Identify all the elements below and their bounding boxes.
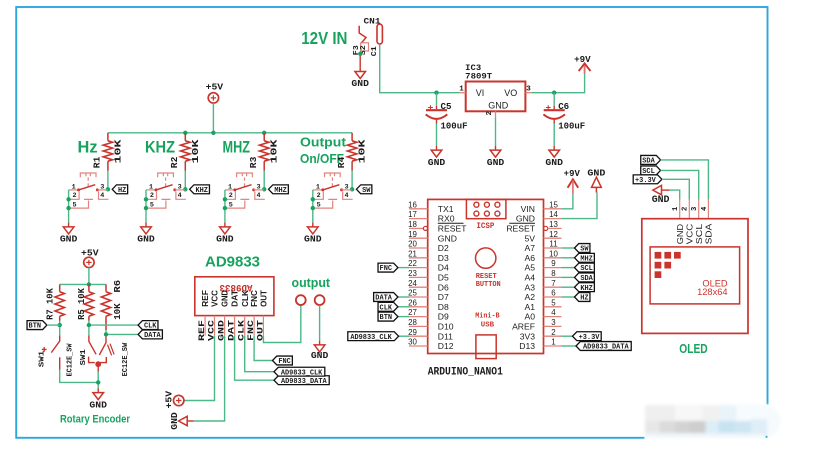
svg-text:2: 2 bbox=[682, 207, 690, 211]
svg-text:GND: GND bbox=[60, 234, 78, 245]
svg-text:GND: GND bbox=[311, 350, 329, 361]
pin 22 D4 of ARDUINO_NANO1 bbox=[409, 267, 428, 269]
svg-text:DATA: DATA bbox=[144, 332, 161, 340]
svg-text:3: 3 bbox=[178, 184, 182, 192]
supply +5V at AD9833 bbox=[174, 395, 184, 405]
resistor R3 10K bbox=[263, 133, 265, 141]
wire SDA to OLED pin4 bbox=[661, 160, 709, 200]
ground at output connector bbox=[319, 341, 321, 345]
resistor R7 10K bbox=[59, 284, 61, 291]
svg-text:100uF: 100uF bbox=[441, 121, 468, 132]
svg-text:3: 3 bbox=[551, 318, 556, 327]
ground arrow at OLED bbox=[653, 185, 662, 194]
net label SDA at OLED bbox=[641, 155, 661, 164]
svg-text:GND: GND bbox=[516, 214, 535, 224]
svg-text:5: 5 bbox=[317, 201, 321, 209]
svg-text:D3: D3 bbox=[438, 253, 449, 263]
net label HZ bbox=[112, 185, 127, 194]
encoder pushbutton switch SW1 bbox=[59, 327, 61, 335]
wire pin27 to BTN bbox=[398, 316, 409, 318]
net label MHZ at Arduino right bbox=[575, 253, 595, 262]
net label DATA at Arduino bbox=[374, 293, 398, 302]
svg-text:2: 2 bbox=[317, 192, 321, 200]
svg-text:22: 22 bbox=[408, 259, 417, 268]
svg-text:D7: D7 bbox=[438, 292, 449, 302]
svg-text:R5 10K: R5 10K bbox=[76, 288, 87, 320]
svg-text:R6: R6 bbox=[112, 279, 123, 292]
junction dots on rail bbox=[183, 131, 187, 135]
wire pin2 to +3.3V bbox=[562, 335, 573, 337]
pin 17 RX0 of ARDUINO_NANO1 bbox=[409, 218, 428, 220]
wire +5V to rail bbox=[212, 103, 214, 133]
svg-text:A1: A1 bbox=[524, 302, 535, 312]
svg-text:R1: R1 bbox=[92, 156, 103, 168]
pin 23 D5 of ARDUINO_NANO1 bbox=[409, 276, 428, 278]
svg-text:VO: VO bbox=[504, 88, 517, 98]
svg-text:AREF: AREF bbox=[512, 322, 535, 332]
svg-text:1: 1 bbox=[551, 338, 555, 347]
net label MHZ bbox=[269, 185, 289, 194]
svg-text:REF: REF bbox=[201, 290, 210, 307]
svg-text:ICSP: ICSP bbox=[476, 222, 494, 231]
svg-text:KHZ: KHZ bbox=[580, 285, 593, 293]
svg-text:14: 14 bbox=[549, 210, 558, 219]
svg-text:8: 8 bbox=[551, 269, 556, 278]
svg-text:C5: C5 bbox=[441, 101, 452, 112]
pin 19 GND of ARDUINO_NANO1 bbox=[409, 237, 428, 239]
net label SW at Arduino right bbox=[575, 244, 590, 253]
resistor R1 10K bbox=[107, 133, 109, 141]
ground under switch HZ bbox=[68, 223, 70, 227]
pin 1 D13 of ARDUINO_NANO1 bbox=[544, 345, 562, 347]
svg-text:3V3: 3V3 bbox=[520, 331, 536, 341]
svg-text:R4: R4 bbox=[336, 156, 347, 168]
svg-text:23: 23 bbox=[408, 269, 417, 278]
svg-text:5: 5 bbox=[72, 201, 76, 209]
svg-text:Rotary Encoder: Rotary Encoder bbox=[60, 413, 131, 425]
pin 30 D12 of ARDUINO_NANO1 bbox=[409, 345, 428, 347]
svg-text:RESET: RESET bbox=[476, 273, 497, 281]
pin 8 A4 of ARDUINO_NANO1 bbox=[544, 276, 562, 278]
net label AD9833_DATA at module bbox=[274, 376, 329, 385]
svg-text:1: 1 bbox=[228, 184, 232, 192]
svg-text:MHZ: MHZ bbox=[580, 255, 593, 263]
net label BTN at Arduino bbox=[378, 312, 398, 321]
wire +3.3V to OLED pin2 bbox=[662, 179, 689, 199]
reset button bbox=[476, 248, 496, 268]
net label CLK at Arduino bbox=[378, 302, 398, 311]
svg-text:MHZ: MHZ bbox=[274, 187, 287, 195]
resistor R6 10K bbox=[105, 284, 107, 291]
wire regulator output to +9V bbox=[531, 74, 584, 93]
svg-text:5: 5 bbox=[229, 201, 233, 209]
svg-text:SDA: SDA bbox=[642, 158, 655, 166]
wire pin to SCL bbox=[562, 267, 575, 269]
svg-text:ARDUINO_NANO1: ARDUINO_NANO1 bbox=[428, 366, 504, 378]
pin 3 AREF of ARDUINO_NANO1 bbox=[544, 325, 562, 327]
svg-text:128x64: 128x64 bbox=[697, 286, 728, 297]
net label +3.3V at OLED bbox=[633, 175, 662, 184]
svg-text:SW1: SW1 bbox=[80, 348, 88, 365]
pin 28 D10 of ARDUINO_NANO1 bbox=[409, 325, 428, 327]
svg-text:2: 2 bbox=[150, 192, 154, 200]
net label DATA encoder bbox=[138, 330, 162, 339]
wire SCL to OLED pin3 bbox=[661, 170, 699, 199]
svg-text:VIN: VIN bbox=[521, 204, 535, 214]
node KHZ junction bbox=[183, 187, 187, 191]
wire switch HZ to ground bbox=[68, 190, 70, 223]
svg-text:A2: A2 bbox=[524, 292, 535, 302]
watermark bbox=[645, 404, 782, 441]
svg-text:4: 4 bbox=[257, 192, 261, 200]
resistor R2 10K bbox=[184, 133, 186, 141]
svg-text:AD9833_DATA: AD9833_DATA bbox=[281, 378, 327, 386]
pin 24 D6 of ARDUINO_NANO1 bbox=[409, 286, 428, 288]
svg-text:GND: GND bbox=[487, 157, 505, 168]
svg-text:BTN: BTN bbox=[29, 323, 42, 331]
module ARDUINO_NANO1 box bbox=[428, 199, 544, 353]
svg-text:5: 5 bbox=[150, 201, 154, 209]
svg-text:RX0: RX0 bbox=[438, 214, 455, 224]
pin 1 GND of OLED bbox=[679, 200, 681, 219]
svg-text:13: 13 bbox=[549, 220, 558, 229]
net label SW bbox=[356, 185, 371, 194]
wire +9V to pin 15 bbox=[562, 194, 573, 209]
svg-text:+: + bbox=[428, 103, 434, 114]
svg-text:DATA: DATA bbox=[375, 295, 392, 303]
wire DAT to AD9833_DATA bbox=[235, 336, 274, 381]
svg-text:GND: GND bbox=[221, 290, 230, 307]
module AD9833 box bbox=[195, 277, 274, 316]
net label HZ at Arduino right bbox=[575, 293, 590, 302]
pin 3 of IC3 bbox=[525, 92, 531, 94]
pin 14 GND of ARDUINO_NANO1 bbox=[544, 218, 562, 220]
svg-text:GND: GND bbox=[137, 234, 155, 245]
output connector pin 1 bbox=[296, 295, 306, 305]
svg-text:7: 7 bbox=[551, 279, 555, 288]
wire R4 to switch bbox=[351, 171, 353, 190]
svg-text:3: 3 bbox=[691, 207, 699, 211]
svg-text:10K: 10K bbox=[190, 139, 201, 163]
capacitor C6 100uF bbox=[553, 93, 555, 106]
net label BTN bbox=[27, 321, 47, 330]
svg-text:11: 11 bbox=[549, 240, 557, 249]
net label SDA at Arduino right bbox=[575, 273, 595, 282]
pin 11 A7 of ARDUINO_NANO1 bbox=[544, 247, 562, 249]
wire GND arrow to pin 14 bbox=[562, 193, 598, 219]
pin 2 VCC of OLED bbox=[688, 200, 690, 219]
module OLED 128x64 box bbox=[642, 219, 748, 334]
pin 7 A3 of ARDUINO_NANO1 bbox=[544, 286, 562, 288]
svg-text:GND: GND bbox=[488, 101, 509, 111]
svg-text:2: 2 bbox=[229, 192, 233, 200]
svg-text:MHZ: MHZ bbox=[223, 139, 251, 157]
svg-text:D8: D8 bbox=[438, 302, 449, 312]
svg-text:5V: 5V bbox=[524, 233, 535, 243]
svg-text:OLED: OLED bbox=[679, 341, 707, 356]
svg-text:2: 2 bbox=[551, 328, 555, 337]
svg-text:GND: GND bbox=[89, 399, 107, 410]
pin 9 A5 of ARDUINO_NANO1 bbox=[544, 267, 562, 269]
svg-text:3: 3 bbox=[344, 184, 348, 192]
svg-text:R2: R2 bbox=[169, 156, 180, 168]
ground under CN1 bbox=[359, 56, 361, 67]
svg-text:1: 1 bbox=[459, 86, 464, 94]
svg-text:3: 3 bbox=[257, 184, 261, 192]
svg-text:+9V: +9V bbox=[574, 55, 591, 65]
wire switch KHZ to ground bbox=[145, 190, 147, 223]
svg-text:HZ: HZ bbox=[118, 187, 127, 195]
pin 13 RESET of ARDUINO_NANO1 bbox=[544, 226, 548, 230]
ground under switch SW bbox=[312, 223, 314, 227]
pushbutton switch KHZ bbox=[158, 173, 174, 177]
svg-text:2: 2 bbox=[72, 192, 76, 200]
svg-text:SW1: SW1 bbox=[38, 350, 46, 367]
svg-text:EC12E_SW: EC12E_SW bbox=[122, 342, 130, 376]
svg-text:AD9833_CLK: AD9833_CLK bbox=[281, 369, 323, 377]
svg-text:GND: GND bbox=[351, 78, 369, 89]
supply +9V at regulator bbox=[584, 65, 586, 74]
net label FNC at module bbox=[273, 356, 293, 365]
svg-text:7809T: 7809T bbox=[465, 71, 492, 81]
svg-text:1: 1 bbox=[72, 184, 76, 192]
wire encoder common to ground bbox=[97, 364, 99, 371]
svg-text:15: 15 bbox=[549, 200, 558, 209]
svg-text:SDA: SDA bbox=[704, 223, 714, 244]
pin 5 A1 of ARDUINO_NANO1 bbox=[544, 306, 562, 308]
svg-text:C6: C6 bbox=[558, 101, 569, 112]
wire pin to SW bbox=[562, 247, 575, 249]
junction dot encoder rail bbox=[87, 282, 91, 286]
svg-text:16: 16 bbox=[408, 200, 417, 209]
wire FNC to label bbox=[254, 336, 272, 361]
ground rotary encoder bbox=[97, 388, 99, 392]
svg-text:10K: 10K bbox=[357, 139, 368, 163]
wire pin to SDA bbox=[562, 276, 575, 278]
svg-text:+: + bbox=[545, 103, 551, 114]
svg-text:5: 5 bbox=[551, 298, 556, 307]
wire OUT to output connector bbox=[263, 305, 300, 342]
pin 29 D11 of ARDUINO_NANO1 bbox=[409, 335, 428, 337]
svg-text:AD9833: AD9833 bbox=[205, 253, 260, 270]
svg-text:R3: R3 bbox=[248, 156, 259, 168]
svg-text:100uF: 100uF bbox=[558, 121, 585, 132]
svg-text:D10: D10 bbox=[438, 322, 454, 332]
svg-text:GND: GND bbox=[652, 194, 670, 206]
svg-text:24: 24 bbox=[408, 279, 417, 288]
svg-text:D11: D11 bbox=[438, 331, 453, 341]
ground under switch MHZ bbox=[224, 223, 226, 227]
svg-text:2: 2 bbox=[486, 111, 494, 116]
svg-text:18: 18 bbox=[408, 220, 417, 229]
ground arrow at AD9833 bbox=[188, 420, 194, 422]
net label AD9833_DATA at Arduino bbox=[576, 342, 631, 351]
svg-text:CLK: CLK bbox=[380, 304, 393, 312]
svg-text:AD9833_CLK: AD9833_CLK bbox=[350, 334, 392, 342]
wire pin to MHZ bbox=[562, 257, 575, 259]
svg-text:30: 30 bbox=[408, 338, 417, 347]
pin 2 of IC3 bbox=[495, 111, 497, 117]
svg-text:10K: 10K bbox=[112, 139, 123, 163]
wire pin to HZ bbox=[562, 296, 575, 298]
junction dot at C5 bbox=[434, 91, 438, 95]
svg-text:DAT: DAT bbox=[231, 290, 240, 307]
svg-text:CLK: CLK bbox=[241, 290, 250, 307]
svg-text:SDA: SDA bbox=[580, 275, 593, 283]
pushbutton switch MHZ bbox=[237, 173, 253, 177]
svg-text:1: 1 bbox=[316, 184, 320, 192]
svg-text:TX1: TX1 bbox=[438, 204, 454, 214]
svg-text:AD9833_DATA: AD9833_DATA bbox=[583, 344, 629, 352]
svg-text:10K: 10K bbox=[112, 303, 123, 320]
wire switch MHZ to ground bbox=[224, 190, 226, 223]
svg-text:A6: A6 bbox=[524, 253, 535, 263]
wire pin26 to CLK bbox=[398, 306, 409, 308]
pin 6 A2 of ARDUINO_NANO1 bbox=[544, 296, 562, 298]
svg-text:4: 4 bbox=[178, 192, 182, 200]
svg-text:BUTTON: BUTTON bbox=[476, 281, 501, 289]
svg-text:GND: GND bbox=[438, 233, 457, 243]
pin 4 A0 of ARDUINO_NANO1 bbox=[544, 316, 562, 318]
net label SCL at Arduino right bbox=[575, 263, 595, 272]
svg-text:10K: 10K bbox=[269, 139, 280, 163]
wire pin22 to FNC bbox=[398, 267, 409, 269]
svg-text:SCL: SCL bbox=[694, 224, 704, 245]
svg-text:D9: D9 bbox=[438, 312, 449, 322]
svg-text:C1: C1 bbox=[371, 46, 379, 56]
svg-text:17: 17 bbox=[408, 210, 417, 219]
svg-text:+5V: +5V bbox=[164, 390, 175, 408]
svg-text:1: 1 bbox=[672, 206, 680, 211]
svg-text:GND: GND bbox=[216, 234, 234, 245]
svg-text:25: 25 bbox=[408, 289, 417, 298]
node SW junction bbox=[350, 187, 354, 191]
svg-text:GND: GND bbox=[169, 412, 180, 430]
net label KHZ at Arduino right bbox=[575, 283, 595, 292]
resistor R4 10K bbox=[351, 133, 353, 141]
pin 1 of IC3 bbox=[460, 92, 466, 94]
ground at IC3 pin 2 bbox=[495, 118, 497, 146]
svg-text:D2: D2 bbox=[438, 243, 449, 253]
wire pin25 to DATA bbox=[398, 296, 409, 298]
svg-text:A5: A5 bbox=[524, 263, 535, 273]
pin 15 VIN of ARDUINO_NANO1 bbox=[544, 208, 562, 210]
svg-text:4: 4 bbox=[551, 308, 556, 317]
wire R1 to switch bbox=[107, 171, 109, 190]
+5V rail wire bbox=[108, 132, 352, 134]
pin 25 D7 of ARDUINO_NANO1 bbox=[409, 296, 428, 298]
svg-text:EC12E_SW: EC12E_SW bbox=[67, 343, 75, 377]
rotary encoder contacts SW1 EC12E_SW bbox=[88, 327, 90, 335]
OLED pixel pattern bbox=[655, 252, 662, 259]
pin 20 D2 of ARDUINO_NANO1 bbox=[409, 247, 428, 249]
net label FNC at Arduino bbox=[378, 263, 398, 272]
pin 4 SDA of OLED bbox=[707, 200, 709, 219]
svg-text:A4: A4 bbox=[524, 273, 535, 283]
wire CLK to AD9833_CLK bbox=[245, 336, 274, 372]
svg-text:26: 26 bbox=[408, 298, 417, 307]
svg-text:GND: GND bbox=[428, 157, 446, 168]
svg-text:+9V: +9V bbox=[564, 169, 581, 179]
svg-text:BTN: BTN bbox=[380, 314, 393, 322]
svg-text:20: 20 bbox=[408, 240, 417, 249]
svg-text:D5: D5 bbox=[438, 273, 449, 283]
svg-text:A0: A0 bbox=[524, 312, 535, 322]
svg-text:VI: VI bbox=[476, 88, 485, 98]
svg-text:A7: A7 bbox=[524, 243, 535, 253]
svg-text:D6: D6 bbox=[438, 282, 449, 292]
wire CN1 to regulator input bbox=[380, 45, 460, 93]
svg-text:D12: D12 bbox=[438, 341, 454, 351]
svg-text:SW: SW bbox=[580, 246, 589, 254]
wire GND to OLED pin1 bbox=[670, 190, 680, 200]
svg-text:FNC: FNC bbox=[278, 358, 291, 366]
pin 3 SCL of OLED bbox=[698, 200, 700, 219]
net label CLK encoder bbox=[138, 321, 158, 330]
junction dot at C6 bbox=[552, 91, 556, 95]
pin 16 TX1 of ARDUINO_NANO1 bbox=[409, 208, 428, 210]
svg-text:RESET: RESET bbox=[438, 224, 467, 234]
svg-text:USB: USB bbox=[481, 321, 495, 329]
pushbutton switch HZ bbox=[80, 173, 96, 177]
svg-text:GND: GND bbox=[545, 157, 563, 168]
svg-text:12V IN: 12V IN bbox=[301, 28, 347, 48]
ICSP header bbox=[466, 199, 506, 218]
svg-text:SCL: SCL bbox=[580, 265, 593, 273]
svg-text:+3.3V: +3.3V bbox=[579, 334, 600, 342]
svg-text:+3.3V: +3.3V bbox=[635, 177, 656, 185]
wire switch SW to ground bbox=[312, 190, 314, 223]
net label AD9833_CLK at module bbox=[274, 367, 325, 376]
svg-text:4: 4 bbox=[344, 192, 348, 200]
svg-text:21: 21 bbox=[408, 249, 417, 258]
wire pin1 to AD9833_DATA bbox=[562, 345, 577, 347]
wire R6 to DATA bbox=[106, 330, 138, 336]
output connector pin 2 bbox=[315, 295, 325, 305]
svg-text:output: output bbox=[292, 275, 331, 290]
pin 27 D9 of ARDUINO_NANO1 bbox=[409, 316, 428, 318]
wire pin to KHZ bbox=[562, 286, 575, 288]
capacitor C5 100uF bbox=[436, 93, 438, 106]
svg-text:9: 9 bbox=[551, 259, 556, 268]
svg-text:HZ: HZ bbox=[580, 295, 589, 303]
node MHZ junction bbox=[262, 187, 266, 191]
svg-text:FNC: FNC bbox=[380, 265, 393, 273]
wire SW1 to ground rail bbox=[60, 370, 98, 383]
svg-text:A3: A3 bbox=[524, 282, 535, 292]
net label AD9833_CLK at Arduino bbox=[348, 332, 399, 341]
svg-text:R7 10K: R7 10K bbox=[45, 288, 56, 320]
wire VCC to +5V bbox=[184, 336, 214, 401]
svg-text:27: 27 bbox=[408, 308, 417, 317]
net label KHZ bbox=[190, 185, 210, 194]
svg-text:GND: GND bbox=[304, 234, 322, 245]
svg-text:19: 19 bbox=[408, 230, 417, 239]
wire R5 to CLK bbox=[89, 321, 138, 328]
pin 12 5V of ARDUINO_NANO1 bbox=[544, 237, 562, 239]
pushbutton switch SW bbox=[325, 173, 341, 177]
net label +3.3V at Arduino bbox=[573, 332, 602, 341]
wire R7 to BTN bbox=[59, 321, 61, 328]
svg-text:6: 6 bbox=[551, 289, 556, 298]
ground under switch KHZ bbox=[145, 223, 147, 227]
svg-text:3: 3 bbox=[526, 86, 531, 94]
svg-text:RESET: RESET bbox=[506, 224, 535, 234]
svg-text:4: 4 bbox=[100, 192, 104, 200]
resistor R5 10K bbox=[88, 284, 90, 291]
svg-text:Mini-B: Mini-B bbox=[475, 313, 500, 321]
svg-text:VCC: VCC bbox=[211, 290, 220, 307]
